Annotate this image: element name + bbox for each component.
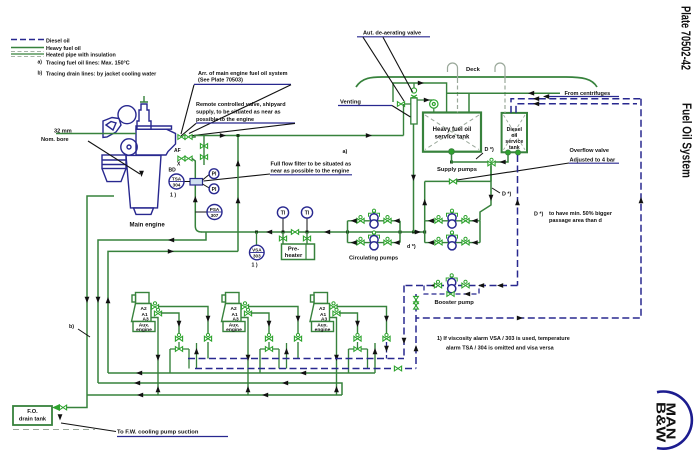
aux engine 2 <box>222 293 246 332</box>
svg-text:passage area than d: passage area than d <box>549 218 602 224</box>
svg-text:PI: PI <box>212 187 217 193</box>
pointer overflow to valve <box>457 163 569 180</box>
wire vent drop x413 to main line <box>413 124 415 232</box>
underline de-aerating label <box>357 36 430 38</box>
HFO tank vent pipe <box>457 79 459 113</box>
arrow diesel feed <box>500 160 506 165</box>
aux engine 3 <box>310 293 334 332</box>
booster discharge valve <box>462 280 469 288</box>
pointer D star tank <box>476 153 483 159</box>
svg-text:Heated pipe with insulation: Heated pipe with insulation <box>46 53 116 59</box>
svg-text:possible to the engine: possible to the engine <box>196 117 254 123</box>
wire gauge stub <box>417 99 434 101</box>
temperature alarm TSA 304 <box>169 174 184 189</box>
arrow booster line 3 <box>497 283 503 288</box>
engine inlet valve pair F <box>178 135 185 140</box>
aux2 drain valve A1 <box>265 333 272 341</box>
svg-text:Tracing fuel oil lines: Max. 1: Tracing fuel oil lines: Max. 150°C <box>46 61 130 67</box>
svg-text:A2: A2 <box>231 306 237 312</box>
svg-text:heater: heater <box>285 253 303 259</box>
column inlet valve <box>397 102 404 107</box>
aux2 drain valve A2 <box>294 333 301 341</box>
svg-text:VSA: VSA <box>252 247 262 252</box>
arrow booster line <box>431 283 437 288</box>
MAN B&W logo <box>653 392 692 449</box>
wire drop to drain tank <box>66 395 87 408</box>
svg-text:drain tank: drain tank <box>19 417 47 423</box>
svg-text:Remote controlled valve, shipy: Remote controlled valve, shipyard <box>196 102 286 108</box>
full flow filter <box>190 179 203 186</box>
pressure indicator PI lower <box>209 184 219 194</box>
svg-text:TI: TI <box>281 211 286 217</box>
circulating pump suction valve <box>357 216 364 224</box>
F.O. drain tank <box>13 406 52 425</box>
arrow up diesel supply <box>515 199 520 205</box>
pressure alarm PSA 307 <box>207 205 222 220</box>
arrow diesel fill lower <box>533 101 539 106</box>
arrow up x108 <box>106 297 111 303</box>
arrow on return line 2 <box>366 133 372 138</box>
wire aux3 v5 <box>374 343 376 373</box>
svg-text:A3: A3 <box>233 316 239 322</box>
svg-text:Venting: Venting <box>340 100 361 106</box>
wire aux1 v5 <box>196 343 198 369</box>
booster relief valve <box>446 274 457 282</box>
aux1 arrow down A2 drop <box>206 316 211 322</box>
wire aux3 drain tee <box>357 342 359 349</box>
arrow gauge stub <box>424 98 430 103</box>
pointer de-aerating 1 <box>363 37 404 101</box>
wire tracing line C y251.4 x108 <box>108 251 238 373</box>
svg-text:service tank: service tank <box>435 135 470 141</box>
arrow into supply manifold <box>415 230 421 235</box>
aux1 arrow down A1 drop <box>177 321 182 327</box>
wire main fuel line y232 <box>201 231 425 233</box>
svg-text:Diesel oil: Diesel oil <box>46 39 70 45</box>
arrow main line left 2 <box>324 230 330 235</box>
aux1 tee valve <box>175 347 182 352</box>
arrow right y318 <box>517 316 523 321</box>
svg-text:32 mm: 32 mm <box>54 129 72 135</box>
aux engine 1 <box>132 293 156 332</box>
wire aux1 A2 line <box>158 307 208 335</box>
aux2 tee valve <box>265 347 272 352</box>
pointer arr left to engine <box>181 85 194 134</box>
aux1 drain valve A1 <box>175 333 182 341</box>
aux3 arrow v1 down <box>334 355 339 361</box>
aux2 arrow v1 up <box>246 386 251 392</box>
wire aux1 drain tee <box>178 342 180 349</box>
wire diesel outlet feed <box>496 155 509 162</box>
svg-text:Plate 70502-42: Plate 70502-42 <box>678 6 692 70</box>
wire aux2 v4 to collector <box>278 349 280 369</box>
aux3 valve A2 <box>330 302 337 310</box>
circulating pump manifolds <box>347 221 349 243</box>
aux3 arrow v5 <box>373 348 378 354</box>
wire diesel supply dashed x517.5 <box>517 155 519 286</box>
underline from centrifuges with arrow <box>545 96 619 98</box>
svg-text:Overflow valve: Overflow valve <box>570 148 610 154</box>
HFO tank outlet <box>449 149 455 155</box>
wire vent return x238 <box>237 136 239 252</box>
deck line <box>356 77 597 87</box>
TI instruments <box>282 218 284 232</box>
aux3 tee valve <box>354 347 361 352</box>
arrow on return line <box>220 133 226 138</box>
wire HFO outlet to junction <box>452 154 489 162</box>
wire aux2 A2 line <box>248 307 298 335</box>
svg-text:d *): d *) <box>407 244 416 250</box>
aux3 drain valve A2 <box>383 333 390 341</box>
wire aux3 v2 to G1 <box>348 349 350 373</box>
booster pump symbol <box>448 278 456 292</box>
aux1 arrow v1 up <box>156 386 161 392</box>
svg-text:Main engine: Main engine <box>130 221 166 228</box>
wire dashed collector upper y358.5 <box>188 358 404 360</box>
arrow G2 <box>134 381 140 386</box>
wire engine return riser x204 <box>203 136 205 166</box>
circulating pump pump <box>370 214 378 228</box>
aux3 arrow down A2 drop <box>384 316 389 322</box>
valve on x204 bypass <box>200 144 207 149</box>
svg-text:a): a) <box>343 149 348 155</box>
pointer arr right to engine <box>189 85 291 134</box>
wire riser engine supply x195 <box>192 159 195 180</box>
legend heated pipe with insulation <box>11 51 44 56</box>
wire diesel fill dashed upper <box>511 99 641 113</box>
viscosity alarm VSA 303 <box>249 245 264 260</box>
svg-text:Heavy fuel oil: Heavy fuel oil <box>46 46 81 52</box>
legend diesel oil line <box>11 39 44 41</box>
aux3 arrow v6 <box>384 346 389 352</box>
pointer b to line <box>78 329 90 337</box>
wire VSA stem <box>256 232 258 245</box>
arrow up x238 <box>236 160 241 166</box>
circulating pump branch y242.6 <box>348 242 401 244</box>
valve on lower collector <box>394 366 401 371</box>
pointer remote left to valve <box>181 123 196 136</box>
pointer venting to column <box>392 106 411 118</box>
arrow booster line 2 <box>478 283 484 288</box>
aux2 arrow down A1 drop <box>267 321 272 327</box>
main engine <box>102 104 176 214</box>
supply pump pump <box>448 214 456 228</box>
circulating pump discharge valve <box>384 216 391 224</box>
arrow right line C <box>168 249 174 254</box>
svg-text:Tracing drain lines: by jacket: Tracing drain lines: by jacket cooling w… <box>46 72 157 78</box>
svg-text:A3: A3 <box>143 316 149 322</box>
circulating pump suction valve <box>357 237 364 245</box>
underline venting <box>338 105 392 107</box>
supply pump discharge valve <box>462 216 469 224</box>
svg-text:AF: AF <box>174 148 181 154</box>
supply pump manifolds <box>424 221 426 243</box>
svg-text:BD: BD <box>169 168 177 174</box>
diesel tank vent pipe <box>504 79 506 113</box>
circulating pump discharge valve <box>384 237 391 245</box>
wire return riser to column <box>403 104 405 136</box>
svg-text:Arr. of main engine fuel oil s: Arr. of main engine fuel oil system <box>198 71 288 77</box>
wire aux2 A3 drop v1 <box>241 318 248 396</box>
svg-text:D *): D *) <box>502 192 511 198</box>
aux2 arrow v1 down <box>246 355 251 361</box>
supply pump branch y220.8 <box>425 220 480 222</box>
svg-text:Booster pump: Booster pump <box>435 300 475 306</box>
arrow down x87 <box>85 297 90 303</box>
hidden line under tank <box>13 429 95 431</box>
wire engine drain stub to x87 <box>87 196 114 395</box>
arrow fill line <box>528 91 534 96</box>
underline overflow label <box>569 162 619 164</box>
wire dashed collector lower y368.5 <box>195 368 416 370</box>
drain tank inlet valve <box>59 405 66 410</box>
de-aerating loop <box>393 83 447 113</box>
svg-text:Fuel Oil System: Fuel Oil System <box>679 103 692 178</box>
pointer FW suction <box>61 423 116 432</box>
supply pump discharge valve <box>462 237 469 245</box>
arrow down supply right manifold <box>489 195 494 201</box>
aux2 arrow down A2 drop <box>296 316 301 322</box>
wire aux2 A1 line <box>251 313 270 334</box>
supply pump pump <box>448 236 456 250</box>
diesel oil service tank <box>502 113 527 152</box>
pointer 32mm to engine <box>88 141 140 174</box>
svg-text:Pre-: Pre- <box>288 247 299 253</box>
svg-text:A3: A3 <box>321 316 327 322</box>
svg-text:supply, to be situated as near: supply, to be situated as near as <box>196 110 281 116</box>
pointer D star <box>492 188 500 193</box>
wire aux1 v4 to collector <box>188 349 190 369</box>
pressure gauge on tank <box>430 100 438 113</box>
arrow down x404 <box>402 338 407 344</box>
wire aux3 v6 lower <box>386 342 388 359</box>
circulating pump arrow 2 <box>394 240 400 245</box>
wire aux3 A1 line <box>339 313 358 334</box>
valve on column left stub <box>404 103 411 105</box>
arrow G3 <box>137 393 143 398</box>
svg-text:PI: PI <box>212 172 217 178</box>
booster bypass valve <box>447 292 454 297</box>
valve on x416 lower <box>414 302 419 309</box>
booster bypass dashed <box>424 286 479 295</box>
supply pump relief valve <box>447 231 458 239</box>
wire aux3 v4 to collector <box>367 349 369 369</box>
circulating pump branch y220.8 <box>348 220 401 222</box>
wire aux2 v5 <box>286 343 288 369</box>
svg-text:D *): D *) <box>485 147 494 153</box>
svg-text:alarm TSA / 304 is omitted and: alarm TSA / 304 is omitted and visa vers… <box>446 345 555 351</box>
wire fill drop into tank <box>468 93 470 112</box>
arrow down FW suction <box>58 414 63 420</box>
diesel tank outlets <box>506 150 511 155</box>
wire junction down to supply pumps <box>490 166 492 181</box>
svg-text:To F.W. cooling pump suction: To F.W. cooling pump suction <box>117 430 199 436</box>
junction dots <box>346 231 349 234</box>
wire supply top line with overflow valve <box>425 180 491 182</box>
aux2 valve A2 <box>241 302 248 310</box>
arrow diesel fill upper <box>533 96 539 101</box>
svg-text:a): a) <box>38 60 43 66</box>
wire aux2 v6 lower <box>297 342 299 359</box>
svg-text:PSA: PSA <box>210 207 220 212</box>
circulating pump arrow <box>351 240 357 245</box>
supply pump arrow <box>428 218 434 223</box>
svg-text:Heavy fuel oil: Heavy fuel oil <box>433 127 472 133</box>
svg-text:Aut. de-aerating valve: Aut. de-aerating valve <box>363 31 421 37</box>
wire booster line y285.5 <box>404 285 518 287</box>
arrow bypass <box>464 292 470 297</box>
bypass valve on main line <box>291 230 298 235</box>
circulating pump relief valve <box>369 231 380 239</box>
svg-text:303: 303 <box>253 254 261 259</box>
pre-heater <box>282 244 315 260</box>
aux1 drain valve A2 <box>204 333 211 341</box>
supply pump relief valve <box>447 209 458 217</box>
arrow label underline <box>543 94 549 99</box>
svg-text:F.O.: F.O. <box>27 409 38 415</box>
instrument connection lines <box>184 175 209 213</box>
aux1 arrow v5 <box>194 348 199 354</box>
valve on x204 bypass lower <box>200 155 207 160</box>
wire aux3 A2 line <box>337 307 387 335</box>
wire aux2 v2 to G1 <box>259 349 261 373</box>
wire bus G3 y395 <box>87 394 342 396</box>
wire diesel fill dashed lower <box>516 104 637 113</box>
temperature indicator TI right <box>301 207 312 218</box>
wire aux1 A3 drop v1 <box>151 318 158 396</box>
arrow G3 2 <box>262 393 268 398</box>
wire heater drops <box>282 232 284 244</box>
pressure indicator PI upper <box>209 169 219 179</box>
svg-text:engine: engine <box>136 327 152 333</box>
venting column <box>411 98 417 124</box>
svg-text:Supply pumps: Supply pumps <box>437 167 477 173</box>
svg-text:Nom. bore: Nom. bore <box>41 137 69 143</box>
heavy fuel oil service tank <box>423 113 481 152</box>
drain tank inlet arrow <box>52 404 60 411</box>
arrow riser up <box>193 196 198 202</box>
legend heavy fuel oil line <box>11 47 44 49</box>
arrow on loop top <box>418 81 424 86</box>
wire bus G2 y383 <box>98 383 342 395</box>
pointer de-aerating 2 <box>383 37 413 92</box>
wire supply left manifold riser <box>424 181 426 220</box>
wire HFO fill line from centrifuges <box>447 92 560 94</box>
arrow G1 <box>136 371 142 376</box>
wire drain line B y241 to x98 <box>98 232 206 383</box>
aux1 valve A1 <box>154 308 161 316</box>
aux1 arrow v1 down <box>156 355 161 361</box>
overflow valve <box>449 179 456 184</box>
wire supply right manifold <box>480 162 491 221</box>
aux1 valve A2 <box>151 302 158 310</box>
supply pump arrow 2 <box>472 240 478 245</box>
svg-text:b): b) <box>38 71 43 77</box>
svg-text:D *): D *) <box>534 212 543 218</box>
arrow left line B <box>168 238 174 243</box>
svg-text:304: 304 <box>173 183 181 188</box>
svg-text:MAN: MAN <box>663 403 677 440</box>
arrow up supply left manifold <box>422 199 427 205</box>
wire aux1 v2 to G1 <box>169 349 171 373</box>
svg-text:Adjusted to 4 bar: Adjusted to 4 bar <box>570 157 617 163</box>
aux3 drain valve A1 <box>354 333 361 341</box>
valve on x416 upper <box>414 296 419 303</box>
arrow main line left <box>266 230 272 235</box>
svg-text:(See Plate 70503): (See Plate 70503) <box>198 78 243 84</box>
underline FW suction <box>117 436 228 438</box>
svg-text:A2: A2 <box>319 306 325 312</box>
arrow up x238 lower <box>236 197 241 203</box>
svg-text:Circulating pumps: Circulating pumps <box>349 256 398 262</box>
arrow down x413 <box>411 175 416 181</box>
aut de-aerating valve <box>411 88 417 98</box>
underline arr label <box>194 83 291 85</box>
supply pump arrow <box>428 240 434 245</box>
svg-text:engine: engine <box>315 327 331 333</box>
wire aux1 A1 line <box>161 313 180 334</box>
svg-text:1 ): 1 ) <box>170 193 176 199</box>
supply pump suction valve <box>435 237 442 245</box>
arrow down x98 <box>96 297 101 303</box>
supply pump suction valve <box>435 216 442 224</box>
circulating pump pump <box>370 236 378 250</box>
wire aux2 drain tee <box>268 342 270 349</box>
aux3 valve A1 <box>333 308 340 316</box>
aux2 valve A1 <box>244 308 251 316</box>
temperature indicator TI left <box>277 207 288 218</box>
svg-text:Full flow filter to be situate: Full flow filter to be situated as <box>271 162 352 168</box>
aux3 arrow v1 up <box>334 386 339 392</box>
wire bus G1 y373 <box>108 372 375 374</box>
supply pump arrow 2 <box>472 218 478 223</box>
circulating pump relief valve <box>369 209 380 217</box>
wire dashed x404 drop to collector <box>403 286 405 359</box>
svg-text:TSA: TSA <box>172 176 182 181</box>
svg-text:near as possible to the engine: near as possible to the engine <box>271 169 350 175</box>
wire aux3 A3 drop v1 <box>330 318 337 396</box>
svg-text:TI: TI <box>305 211 310 217</box>
circulating pump arrow 2 <box>394 218 400 223</box>
svg-text:engine: engine <box>226 327 242 333</box>
svg-text:to have min. 50% bigger: to have min. 50% bigger <box>549 211 613 217</box>
engine green fittings <box>56 96 148 134</box>
underline filter label <box>270 174 352 176</box>
wire return line from F to y135 <box>192 136 404 138</box>
arrow up x641 <box>639 197 644 203</box>
pointer remote right to valve <box>189 123 295 136</box>
pointer filter label to filter <box>204 174 271 181</box>
svg-text:A2: A2 <box>141 306 147 312</box>
circulating pump arrow <box>351 218 357 223</box>
wire dashed x416 drop <box>415 294 417 369</box>
supply pump branch y242.6 <box>425 242 480 244</box>
arrow up x416 <box>414 345 419 351</box>
underline remote label <box>196 122 295 124</box>
svg-text:1 ): 1 ) <box>252 263 258 269</box>
svg-text:1) If viscosity alarm VSA / 3: 1) If viscosity alarm VSA / 303 is used,… <box>437 336 570 342</box>
arrow G2 2 <box>282 381 288 386</box>
wire aux1 v6 lower <box>207 342 209 359</box>
heater inlet valve <box>279 236 286 241</box>
heater outlet valve <box>303 236 310 241</box>
wire centrifuge return dashed x641 <box>416 99 641 318</box>
svg-text:307: 307 <box>211 213 219 218</box>
aux2 arrow v5 <box>284 348 289 354</box>
overflow junction valve <box>488 158 495 166</box>
arrow G1 2 <box>300 371 306 376</box>
svg-text:b): b) <box>69 324 74 330</box>
